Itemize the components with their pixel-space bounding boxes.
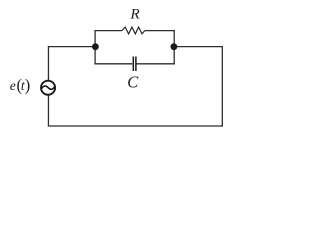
svg-text:C: C — [127, 73, 139, 92]
svg-text:e: e — [10, 78, 16, 93]
svg-text:R: R — [129, 5, 140, 22]
svg-text:): ) — [25, 76, 31, 95]
